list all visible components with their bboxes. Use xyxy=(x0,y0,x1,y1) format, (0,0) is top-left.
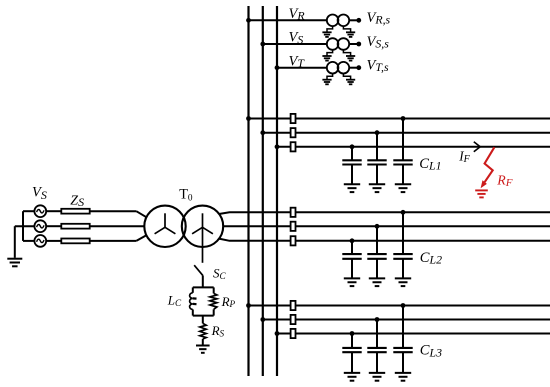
svg-text:CL3: CL3 xyxy=(420,343,442,360)
svg-text:VT,s: VT,s xyxy=(367,58,389,75)
svg-text:CL2: CL2 xyxy=(420,250,442,267)
svg-text:ZS: ZS xyxy=(70,194,84,210)
svg-text:VR,s: VR,s xyxy=(367,10,391,27)
svg-text:RF: RF xyxy=(496,172,512,189)
svg-text:VS: VS xyxy=(32,184,47,202)
svg-text:VT: VT xyxy=(289,53,306,70)
svg-text:VS,s: VS,s xyxy=(367,34,390,51)
svg-text:IF: IF xyxy=(458,149,470,166)
svg-text:LC: LC xyxy=(167,292,182,307)
svg-text:VR: VR xyxy=(289,6,306,23)
svg-text:VS: VS xyxy=(289,30,304,47)
svg-text:RS: RS xyxy=(211,323,225,338)
svg-text:CL1: CL1 xyxy=(419,156,441,173)
svg-text:T0: T0 xyxy=(179,187,193,204)
svg-text:RP: RP xyxy=(221,294,236,309)
svg-text:SC: SC xyxy=(213,266,227,281)
